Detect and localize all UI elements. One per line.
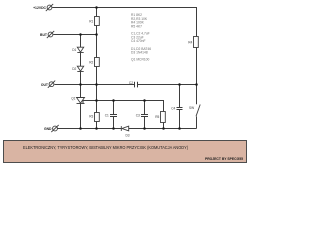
diode D3 [121,126,128,131]
switch SW [196,105,200,117]
wire C4 column [179,85,181,108]
resistor R5 [161,112,166,123]
node dot gate/C3 [143,99,146,102]
svg-text:+12VDC: +12VDC [33,6,46,10]
node dot gate/R3 [95,99,98,102]
svg-text:ELEKTRONICZNY, TYRYSTOROWY, BI: ELEKTRONICZNY, TYRYSTOROWY, BISTABILNY M… [23,145,188,150]
svg-text:Q1 MCR100: Q1 MCR100 [131,58,149,62]
wire switch top lead [196,85,198,105]
wire column R3 [96,101,98,113]
capacitor C2 [135,82,138,88]
wire C3 column [144,101,146,115]
resistor R4 [194,37,199,48]
svg-text:GND: GND [44,127,52,131]
svg-text:R5 4K7: R5 4K7 [131,24,142,28]
svg-text:D2: D2 [72,67,76,71]
svg-text:R4: R4 [188,40,192,44]
wire top rail +12VDC [52,8,196,37]
capacitor C4 [177,108,183,110]
title bar [4,141,247,163]
node dot gate/C1 [112,99,115,102]
wire thyristor cathode [80,104,82,129]
connector P2 BUT [47,31,54,38]
capacitor C3 [141,115,148,117]
wire OUT rail right [138,84,197,86]
wire C1 column [113,101,115,115]
wire right column upper [196,48,198,85]
wire gate [83,101,164,112]
node dot OUT/R2 [95,83,98,86]
svg-text:R1: R1 [89,19,93,23]
parts list [131,13,151,61]
diode D1 [77,47,83,52]
svg-text:C1: C1 [105,114,109,118]
node dot gnd/R5 [162,127,165,130]
svg-text:R3: R3 [89,115,93,119]
node dot gnd/C3 [143,127,146,130]
resistor R3 [95,113,100,122]
svg-text:D3 1N4148: D3 1N4148 [131,51,148,55]
svg-text:SW: SW [189,106,194,110]
svg-text:C2: C2 [129,81,133,85]
node dot gnd/Q1 [79,127,82,130]
svg-text:C4 470nF: C4 470nF [131,39,145,43]
node dot BUT/R1 [95,33,98,36]
node dot gnd/R3 [95,127,98,130]
node dot OUT/C4 [178,83,181,86]
wire bottom GND rail right [129,128,197,130]
diode D2 [77,66,83,71]
node dot OUT/Q1 [79,83,82,86]
node dot gnd/C1 [112,127,115,130]
svg-text:R2: R2 [89,60,93,64]
svg-text:PROJECT BY SPECG55: PROJECT BY SPECG55 [205,157,243,161]
connector P1 +12VDC [46,4,53,11]
wire column R1 top [96,8,98,17]
wire column R1-R2 [96,26,98,58]
wire R5 bottom [163,123,165,129]
wire column R2 bottom [96,67,98,101]
node dot BUT/D1 [79,33,82,36]
wire bottom GND rail left [58,128,122,130]
capacitor C1 [110,115,117,117]
resistor R2 [95,58,100,67]
connector P3 OUT [48,81,55,88]
node dot gnd/C4 [178,127,181,130]
node dot OUT/SW [195,83,198,86]
wire switch bottom lead [196,117,198,129]
wire diode column [80,35,82,48]
wire rail BUT [53,34,96,36]
svg-text:BUT: BUT [40,33,48,37]
svg-text:R5: R5 [155,115,159,119]
thyristor Q1 [77,98,85,104]
svg-text:C3: C3 [136,114,140,118]
svg-text:Q1: Q1 [71,97,75,101]
node dot top R1 [95,6,98,9]
connector P4 GND [51,125,58,132]
svg-text:OUT: OUT [41,83,49,87]
wire thyristor anode [80,85,82,98]
resistor R1 [95,17,100,26]
svg-text:C4: C4 [171,107,175,111]
wire OUT rail left [55,84,135,86]
svg-text:D1: D1 [72,48,76,52]
svg-text:D3: D3 [125,133,129,137]
